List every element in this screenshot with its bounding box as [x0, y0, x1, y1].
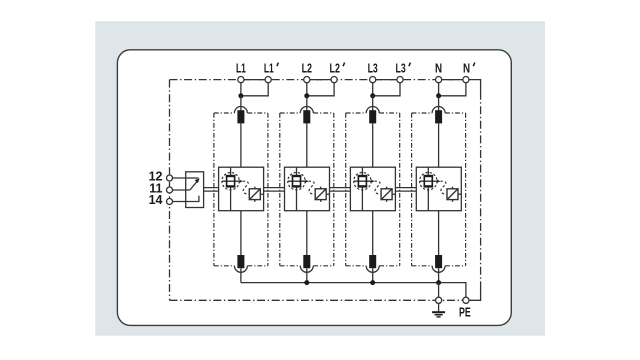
wire L1 to PE bus [240, 268, 242, 282]
node L3 bus junction [370, 280, 375, 285]
mechanical coupling double line (lower) [204, 190, 417, 192]
wire N to module [438, 96, 440, 112]
device boundary top-right corner wire [466, 80, 481, 92]
thermal disconnector top L1 [237, 110, 244, 123]
wire L2 disconnector to box [306, 123, 308, 167]
varistor L1 lead right [260, 193, 263, 195]
terminal L2 [304, 77, 310, 83]
terminal L3´ [397, 77, 403, 83]
trigger link L2 (dashed) [309, 181, 316, 194]
ground [438, 303, 440, 312]
spark gap N enclosure (dashed circle) [420, 173, 437, 190]
terminal 12 [167, 175, 173, 181]
SPD module L3 boundary top (dash-dot) [346, 112, 367, 114]
spark gap L2 lead bottom [296, 187, 298, 211]
svg-text:N: N [435, 62, 442, 76]
svg-text:L1: L1 [264, 62, 274, 76]
svg-text:L1: L1 [236, 62, 246, 76]
terminal N [436, 77, 442, 83]
SPD module L2 boundary right (dash-dot) [333, 113, 335, 266]
svg-text:PE: PE [459, 306, 471, 320]
module L1 bottom exit arc [234, 266, 247, 273]
wire contact 11 inside box [186, 189, 190, 191]
wire contact 14 [170, 196, 199, 202]
varistor N tick top [452, 187, 454, 189]
svg-text:L3: L3 [368, 62, 378, 76]
terminal L3 [370, 77, 376, 83]
wire L2 box to bottom disconnector [306, 211, 308, 256]
wire contact 14 inside box [186, 196, 199, 202]
wire terminal pair L2 link [307, 79, 334, 81]
changeover contact arm [190, 181, 198, 190]
wire terminal pair N link [439, 79, 466, 81]
node L3 junction [370, 93, 375, 98]
SPD module L3 boundary left (dash-dot) [345, 113, 347, 266]
spark gap L3 enclosure (dashed circle) [354, 173, 371, 190]
varistor N tick bottom [452, 200, 454, 202]
wire contact 11 [170, 189, 190, 191]
background panel [95, 21, 545, 336]
wire L2´ link [307, 83, 334, 96]
wire terminal pair L3 link [373, 79, 400, 81]
varistor L2 lead right [326, 193, 329, 195]
wire bus to earth terminal [438, 283, 440, 298]
module L2 top entry arc [300, 107, 313, 113]
wire L3 disconnector to box [372, 123, 374, 167]
SPD element box N [416, 167, 461, 211]
varistor L3 tick bottom [386, 200, 388, 202]
trigger arrowhead N [437, 180, 440, 183]
wire L2 to PE bus [306, 268, 308, 282]
SPD module L1 boundary right (dash-dot) [267, 113, 269, 266]
node L2 junction [304, 93, 309, 98]
terminal PE [463, 297, 469, 303]
wire L3 to module [372, 96, 374, 112]
spark gap L3 lead bottom [361, 187, 363, 211]
SPD module L2 boundary bottom (dash-dot) [280, 265, 301, 267]
thermal disconnector bottom L3 [369, 255, 376, 268]
varistor L3 lead right [392, 193, 395, 195]
node N bus junction [436, 280, 441, 285]
SPD module N boundary left (dash-dot) [411, 113, 413, 266]
thermal disconnector top L3 [369, 110, 376, 123]
SPD module N boundary top (dash-dot) [412, 112, 433, 114]
wire L1 to module [240, 96, 242, 112]
wire L3 box to bottom disconnector [372, 211, 374, 256]
spark gap N lead bottom [427, 187, 429, 211]
svg-text:L3: L3 [396, 62, 406, 76]
changeover contact arrowhead [195, 178, 200, 183]
spark gap N electrodes [424, 176, 432, 187]
varistor N lead right [458, 193, 461, 195]
signalling contact box K1 [186, 172, 204, 208]
spark gap L1 electrode gap line [222, 180, 239, 182]
terminal 14 [167, 199, 173, 205]
module N top entry arc [432, 107, 445, 113]
wire L1´ link [241, 83, 268, 96]
spark gap L1 electrodes [227, 176, 235, 187]
varistor L2 [315, 189, 326, 200]
svg-text:N: N [463, 62, 470, 76]
wire N disconnector to box [438, 123, 440, 167]
mechanical coupling double line (upper) [204, 187, 417, 189]
varistor L1 tick bottom [254, 200, 256, 202]
node L2 bus junction [304, 280, 309, 285]
terminal L1 [238, 77, 244, 83]
module L1 top entry arc [234, 107, 247, 113]
device boundary top wire (dash-dot) [170, 79, 466, 81]
SPD module L1 boundary left (dash-dot) [213, 113, 215, 266]
varistor L2 tick top [320, 187, 322, 189]
device boundary right wire (dash-dot) [480, 92, 482, 283]
spark gap L3 electrode gap line [354, 180, 371, 182]
varistor N [447, 189, 458, 200]
spark gap N electrode gap line [420, 180, 437, 182]
SPD module L3 boundary right (dash-dot) [399, 113, 401, 266]
wire L1 box to bottom disconnector [240, 211, 242, 256]
svg-text:L2: L2 [302, 62, 312, 76]
trigger link N (dashed) [440, 181, 447, 194]
thermal disconnector top L2 [303, 110, 310, 123]
svg-text:14: 14 [149, 193, 163, 207]
wire L2 terminal drop [306, 83, 308, 96]
SPD module L2 boundary left (dash-dot) [279, 113, 281, 266]
spark gap L2 lead top [296, 167, 298, 175]
wire L2 to module [306, 96, 308, 112]
PE bus wire [241, 283, 466, 298]
node L1 junction [238, 93, 243, 98]
wire N´ link [439, 83, 466, 96]
wire PE terminal to boundary [469, 283, 481, 300]
SPD module L1 boundary bottom (dash-dot) [214, 265, 235, 267]
wire L1 terminal drop [240, 83, 242, 96]
wire N terminal drop [438, 83, 440, 96]
module L3 top entry arc [366, 107, 379, 113]
trigger arrowhead L1 [239, 180, 242, 183]
trigger arrowhead L3 [371, 180, 374, 183]
spark gap L2 electrode gap line [288, 180, 305, 182]
terminal L1´ [265, 77, 271, 83]
SPD element box L1 [219, 167, 264, 211]
SPD element box L3 [350, 167, 395, 211]
SPD module L2 boundary top (dash-dot) [280, 112, 301, 114]
SPD element box L2 [285, 167, 330, 211]
wire contact 12 [170, 177, 199, 179]
SPD module L1 boundary top (dash-dot) [214, 112, 235, 114]
trigger arrowhead L2 [305, 180, 308, 183]
wire L3´ link [373, 83, 400, 96]
thermal disconnector bottom L2 [303, 255, 310, 268]
wire L3 terminal drop [372, 83, 374, 96]
spark gap L3 lead top [361, 167, 363, 175]
SPD module N boundary bottom (dash-dot) [412, 265, 433, 267]
trigger link L3 (dashed) [375, 181, 382, 194]
spark gap L2 enclosure (dashed circle) [288, 173, 305, 190]
varistor L3 [381, 189, 392, 200]
svg-text:L2: L2 [330, 62, 340, 76]
module L3 bottom exit arc [366, 266, 379, 273]
node N junction [436, 93, 441, 98]
thermal disconnector bottom N [435, 255, 442, 268]
trigger link L1 (dashed) [243, 181, 250, 194]
wire contact 12 inside box [186, 177, 199, 179]
spark gap L2 electrodes [293, 176, 301, 187]
varistor L1 [249, 189, 260, 200]
module N bottom exit arc [432, 266, 445, 273]
thermal disconnector top N [435, 110, 442, 123]
earth terminal [436, 297, 442, 303]
SPD module L3 boundary bottom (dash-dot) [346, 265, 367, 267]
wire terminal pair L1 link [241, 79, 268, 81]
varistor L3 tick top [386, 187, 388, 189]
SPD module N boundary right (dash-dot) [465, 113, 467, 266]
device boundary left wire (dash-dot) [169, 80, 171, 301]
spark gap L1 lead bottom [230, 187, 232, 211]
spark gap L1 enclosure (dashed circle) [222, 173, 239, 190]
spark gap N lead top [427, 167, 429, 175]
thermal disconnector bottom L1 [237, 255, 244, 268]
wire L3 to PE bus [372, 268, 374, 282]
schematic card [117, 50, 511, 326]
device boundary bottom wire (dash-dot) [170, 299, 463, 301]
module L2 bottom exit arc [300, 266, 313, 273]
terminal N´ [463, 77, 469, 83]
varistor L1 tick top [254, 187, 256, 189]
spark gap L1 lead top [230, 167, 232, 175]
wire L1 disconnector to box [240, 123, 242, 167]
wire N to PE bus [438, 268, 440, 282]
spark gap L3 electrodes [358, 176, 366, 187]
terminal 11 [167, 187, 173, 193]
terminal L2´ [331, 77, 337, 83]
wire N box to bottom disconnector [438, 211, 440, 256]
varistor L2 tick bottom [320, 200, 322, 202]
